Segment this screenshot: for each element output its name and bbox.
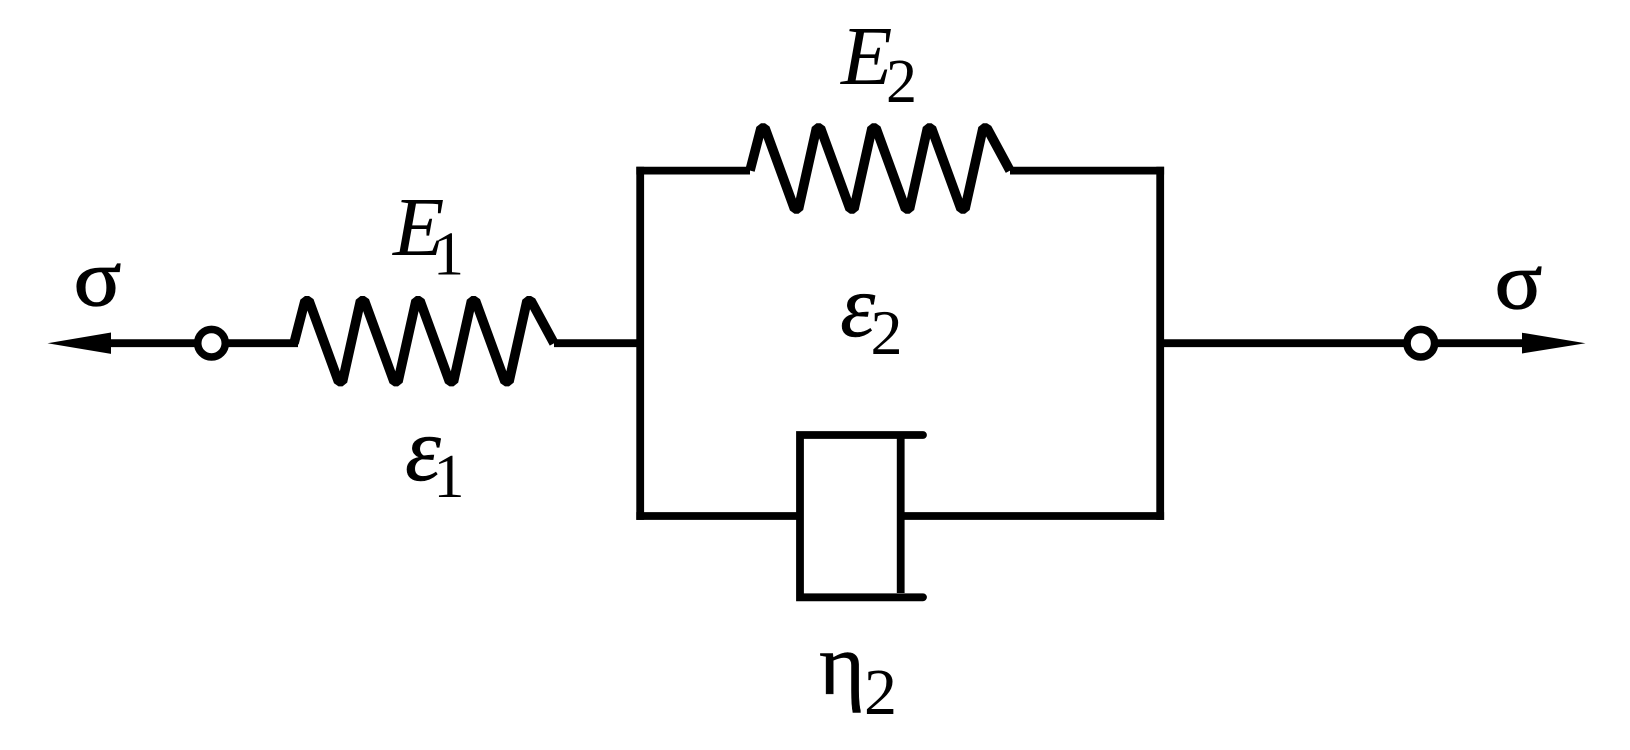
svg-text:1: 1 [433,221,464,289]
svg-text:2: 2 [864,656,897,729]
svg-text:1: 1 [434,443,465,511]
svg-text:η: η [819,617,865,714]
svg-text:2: 2 [886,48,917,116]
svg-text:2: 2 [871,297,903,368]
svg-text:E: E [840,10,892,103]
svg-text:σ: σ [74,235,122,323]
svg-text:σ: σ [1495,238,1543,326]
